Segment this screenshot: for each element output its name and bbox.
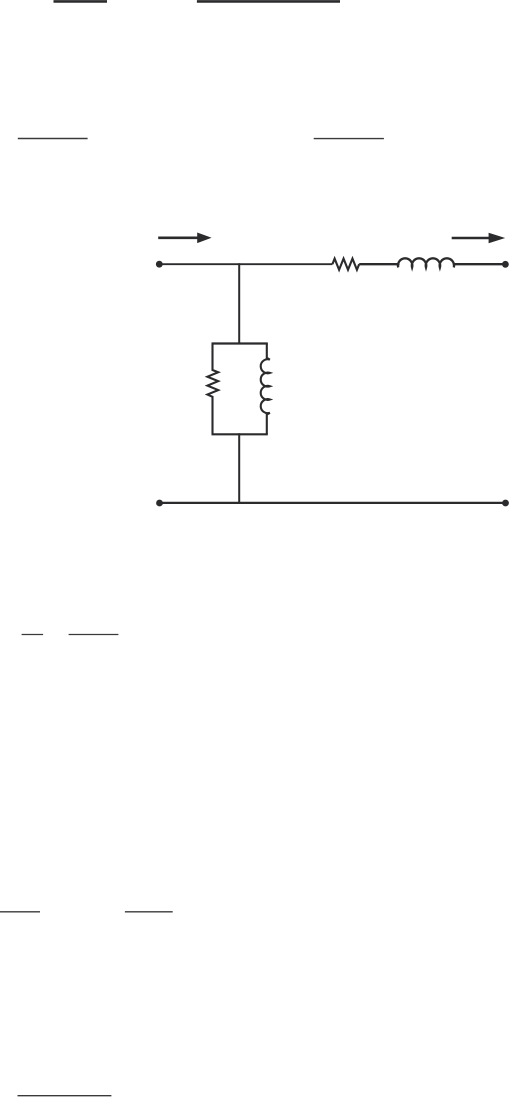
fraction bar (third equation row, right)	[69, 634, 119, 636]
wire (series inductor to top right port)	[453, 263, 506, 265]
wire (between series resistor and series inductor)	[359, 263, 399, 265]
inductor L1 (series, horizontal, 4 humps)	[398, 258, 454, 267]
fraction bar (top equation, left, cut off at page top)	[54, 0, 108, 3]
current arrow I1 (input, top left)	[158, 233, 211, 244]
wire (parallel box bottom edge)	[212, 433, 268, 435]
wire (parallel box top edge)	[212, 342, 268, 344]
inductor L2 (shunt, vertical, 4 humps in right leg of box)	[261, 344, 270, 435]
resistor R2 (shunt, vertical zigzag in left leg of box)	[207, 344, 218, 435]
fraction bar (second equation row, right)	[314, 138, 384, 140]
fraction bar (fourth equation row, right)	[125, 911, 173, 913]
resistor R1 (series, horizontal zigzag)	[332, 259, 359, 270]
terminal dot (bottom right port)	[502, 500, 509, 507]
fraction bar (second equation row, left)	[18, 138, 88, 140]
terminal dot (top right port)	[502, 261, 509, 268]
wire (bottom bus)	[160, 502, 506, 504]
fraction bar (bottom equation, cut off at page bottom)	[18, 1095, 112, 1097]
wire (vertical branch, box bottom to bottom bus)	[238, 433, 240, 503]
terminal dot (bottom left port)	[156, 500, 163, 507]
terminal dot (top left port)	[156, 261, 163, 268]
node A (junction on top wire) / wire (vertical branch down to parallel box)	[238, 263, 240, 344]
wire (top left, port to series resistor)	[159, 263, 332, 265]
fraction bar (third equation row, left)	[22, 634, 43, 636]
fraction bar (top equation, right, cut off at page top)	[197, 0, 340, 3]
current arrow I2 (output, top right)	[452, 233, 506, 244]
fraction bar (fourth equation row, left, cut off at page edge)	[0, 911, 40, 913]
